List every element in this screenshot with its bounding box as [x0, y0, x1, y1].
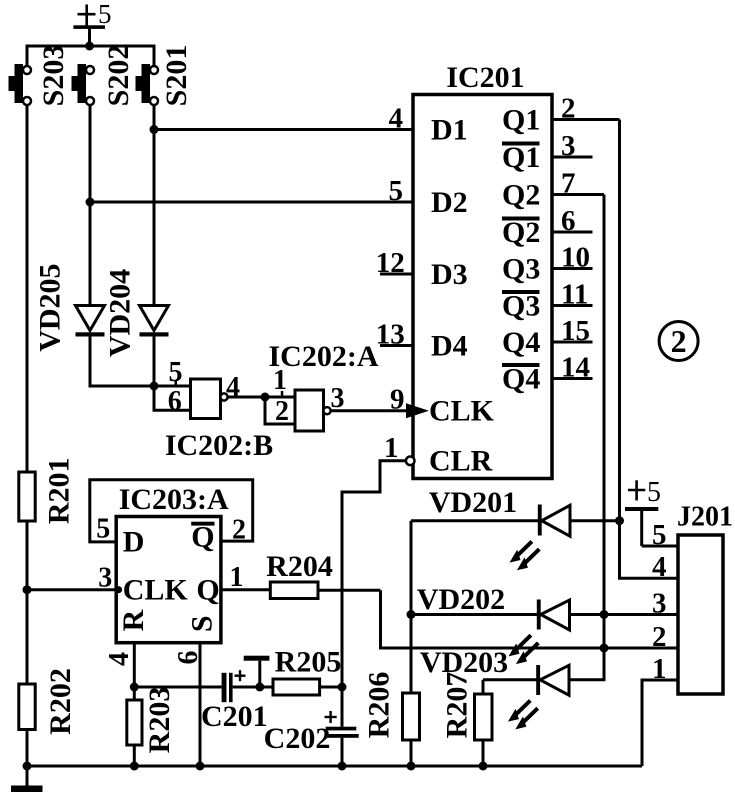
wire D2 line — [90, 201, 413, 204]
wire IC203 S pin down — [199, 643, 202, 766]
svg-text:R207: R207 — [441, 672, 474, 739]
wire S202 column down to VD205 — [89, 105, 92, 306]
node R pin junction — [130, 683, 139, 692]
svg-text:14: 14 — [561, 352, 590, 384]
node CLK rail junction — [23, 585, 32, 594]
node D2 junction — [86, 198, 95, 207]
svg-text:1: 1 — [384, 432, 399, 464]
pin 6 stub Q2bar — [552, 205, 593, 237]
resistor R202 — [19, 668, 77, 735]
wire VD201 row — [411, 519, 620, 522]
node J201 pin2 junction — [600, 644, 609, 653]
switch S201 — [136, 45, 194, 107]
svg-text:IC202:B: IC202:B — [165, 429, 273, 462]
svg-text:4: 4 — [652, 551, 667, 583]
wire S203 column down to R201 — [26, 105, 29, 472]
wire J201 pin 2 row — [381, 590, 679, 648]
svg-text:Q2: Q2 — [502, 216, 540, 249]
wire C201 to R205 — [233, 686, 273, 689]
wire R207 to rail — [482, 740, 485, 766]
node rail R207 junction — [479, 762, 488, 771]
svg-text:D3: D3 — [431, 258, 468, 291]
svg-text:C201: C201 — [201, 700, 268, 733]
svg-text:11: 11 — [561, 279, 588, 311]
svg-text:7: 7 — [561, 168, 576, 200]
flip-flop IC203:A box — [116, 483, 229, 643]
svg-text:6: 6 — [168, 386, 182, 417]
svg-text:VD205: VD205 — [33, 263, 66, 351]
connector J201 — [677, 502, 733, 695]
capacitor C202 — [264, 687, 359, 766]
svg-text:S201: S201 — [160, 45, 193, 107]
svg-text:15: 15 — [561, 315, 590, 347]
wire gate B output to gate A input — [228, 396, 295, 399]
wire top +5 rail — [27, 46, 154, 66]
svg-text:2: 2 — [275, 396, 289, 427]
wire J201 pin 5 — [642, 519, 678, 551]
svg-text:5: 5 — [96, 514, 110, 545]
node C201 R205 junction — [255, 683, 264, 692]
node rail C202 junction — [338, 762, 347, 771]
label Q3bar — [502, 289, 540, 322]
svg-text:R202: R202 — [44, 668, 77, 735]
svg-text:5: 5 — [98, 0, 112, 29]
svg-text:VD204: VD204 — [104, 269, 137, 357]
pin 10 stub Q3 — [552, 242, 593, 274]
node CLK pin dot — [115, 586, 122, 593]
node rail S203 junction — [23, 762, 32, 771]
label IC202:A pin 1 — [273, 365, 287, 398]
svg-text:5: 5 — [647, 477, 661, 508]
svg-text:VD202: VD202 — [417, 583, 505, 616]
diode VD202 — [509, 600, 570, 665]
wire S201 column down to VD204 — [153, 105, 156, 306]
label Q2bar — [502, 216, 540, 249]
gate IC202:B — [191, 379, 228, 419]
wire D to Qbar feedback loop — [90, 480, 253, 542]
svg-text:R201: R201 — [43, 457, 76, 524]
CLR bubble — [406, 457, 415, 466]
wire D4 stub — [380, 344, 413, 347]
svg-text:D2: D2 — [431, 186, 468, 219]
svg-text:6: 6 — [561, 205, 576, 237]
svg-text:Q: Q — [196, 574, 219, 607]
diode VD203 — [508, 665, 569, 729]
power tap bar above C201 — [244, 656, 270, 687]
svg-text:Q3: Q3 — [502, 252, 540, 285]
svg-text:D: D — [123, 526, 145, 559]
svg-text:D1: D1 — [431, 113, 468, 146]
wire R206 net vertical — [410, 521, 413, 693]
wire bottom ground rail — [27, 765, 642, 768]
wire R pin to C201 — [134, 686, 221, 689]
wire Q2 net down — [603, 195, 606, 649]
pin 11 stub Q3bar — [552, 279, 593, 311]
svg-text:CLK: CLK — [429, 395, 495, 428]
svg-text:D4: D4 — [431, 329, 468, 362]
svg-text:IC201: IC201 — [446, 61, 524, 94]
node CLR R205 C202 junction — [338, 683, 347, 692]
resistor R203 — [127, 687, 176, 754]
CLK arrowhead — [406, 403, 429, 418]
svg-text:S202: S202 — [102, 45, 135, 107]
svg-text:S203: S203 — [37, 45, 70, 107]
wire R204 to corner — [318, 589, 381, 592]
diode VD204 — [104, 269, 169, 357]
node gate B input junction — [150, 382, 159, 391]
wire Q to R204 — [221, 588, 270, 591]
svg-text:2: 2 — [232, 515, 246, 546]
svg-text:CLR: CLR — [429, 445, 493, 478]
wire R205 to node — [320, 686, 342, 689]
wire CLK line from rail — [27, 588, 116, 591]
svg-text:2: 2 — [671, 323, 687, 359]
node gate A input junction — [261, 393, 270, 402]
svg-text:Q1: Q1 — [502, 103, 540, 136]
resistor R204 — [266, 550, 333, 599]
svg-text:R204: R204 — [266, 550, 333, 583]
wire Q1 net down — [620, 120, 679, 579]
svg-text:5: 5 — [652, 519, 667, 551]
svg-text:IC202:A: IC202:A — [269, 340, 379, 373]
wire VD202 row (J201 pin 3) — [411, 613, 678, 616]
power +5 (top) — [73, 0, 111, 46]
IC201 box — [413, 61, 552, 479]
circled 2 marker — [659, 322, 698, 361]
wire VD203 row — [483, 648, 604, 680]
wire VD203 to R207 — [482, 680, 485, 694]
diode VD201 — [510, 505, 571, 571]
svg-text:R: R — [117, 609, 150, 631]
svg-text:S: S — [186, 615, 219, 632]
resistor R206 — [363, 672, 420, 740]
node D1 junction — [150, 125, 159, 134]
pin 2 stub Q1 — [552, 93, 620, 125]
wire R202 to bottom rail — [26, 730, 29, 767]
power +5 (right) — [625, 477, 661, 546]
diode VD205 — [33, 263, 104, 351]
svg-text:Q4: Q4 — [502, 362, 540, 395]
wire J201 pin 1 to ground rail — [642, 680, 678, 766]
svg-text:6: 6 — [173, 651, 204, 665]
wire VD205 to gate pin 5 — [90, 337, 191, 387]
wire gate A output to IC201 CLK — [331, 409, 407, 412]
wire gate A pin 2 — [265, 397, 295, 424]
node VD202 Q2 junction — [600, 610, 609, 619]
wire CLR net — [342, 461, 406, 687]
resistor R201 — [19, 457, 76, 524]
label IC202:B pin 5 — [169, 357, 183, 388]
node rail R206 junction — [407, 762, 416, 771]
node rail R203 junction — [130, 762, 139, 771]
svg-text:10: 10 — [561, 242, 590, 274]
node VD201 Q1 junction — [615, 516, 624, 525]
svg-text:R205: R205 — [275, 646, 342, 679]
svg-text:Q4: Q4 — [502, 326, 540, 359]
pin 7 stub Q2 — [552, 168, 604, 200]
label Q4bar — [502, 362, 540, 395]
gate IC202:A — [295, 390, 331, 431]
svg-text:5: 5 — [389, 175, 404, 207]
svg-text:IC203:A: IC203:A — [119, 483, 229, 516]
wire R203 to rail — [133, 745, 136, 766]
svg-text:2: 2 — [561, 93, 576, 125]
capacitor C201 — [201, 670, 268, 733]
label Qbar — [191, 521, 214, 554]
resistor R205 — [273, 646, 341, 696]
svg-text:4: 4 — [104, 652, 135, 666]
label Q1bar — [502, 141, 540, 174]
svg-text:Q3: Q3 — [502, 289, 540, 322]
switch S203 — [9, 45, 71, 107]
svg-text:Q1: Q1 — [502, 141, 540, 174]
svg-text:Q2: Q2 — [502, 178, 540, 211]
wire D3 stub — [380, 273, 413, 276]
svg-text:R206: R206 — [363, 672, 396, 739]
svg-text:3: 3 — [561, 130, 576, 162]
wire VD204 down to pin5 line — [153, 337, 156, 387]
switch S202 — [72, 45, 136, 107]
wire IC203 R pin down — [133, 643, 136, 700]
svg-text:CLK: CLK — [123, 574, 189, 607]
svg-text:Q: Q — [191, 521, 214, 554]
pin 15 stub Q4 — [552, 315, 593, 347]
node VD202 left junction — [407, 610, 416, 619]
wire gate B pin 6 — [154, 386, 191, 410]
svg-text:J201: J201 — [677, 502, 733, 533]
wire R206 to rail — [410, 740, 413, 766]
svg-text:4: 4 — [389, 103, 404, 135]
node +5 rail junction — [85, 42, 94, 51]
ground symbol — [11, 766, 43, 792]
node rail S pin junction — [196, 762, 205, 771]
svg-text:R203: R203 — [143, 687, 176, 754]
svg-text:VD201: VD201 — [429, 486, 517, 519]
pin 14 stub Q4bar — [552, 352, 593, 384]
svg-text:9: 9 — [390, 384, 405, 416]
wire D1 line — [154, 128, 413, 131]
pin 3 stub Q1bar — [552, 130, 593, 162]
wire R201 to R202 — [26, 521, 29, 684]
svg-text:C202: C202 — [264, 722, 331, 755]
resistor R207 — [441, 672, 493, 740]
